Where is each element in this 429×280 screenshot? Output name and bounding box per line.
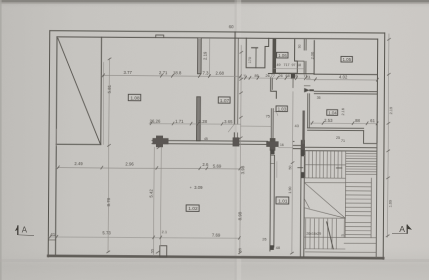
horiz dim y=237 xyxy=(48,237,240,238)
svg-text:48: 48 xyxy=(276,246,280,250)
corridor top wall xyxy=(268,72,314,74)
svg-text:5.73: 5.73 xyxy=(102,230,111,235)
svg-text:68: 68 xyxy=(285,74,289,78)
svg-text:18.8: 18.8 xyxy=(173,70,182,75)
svg-text:1.04: 1.04 xyxy=(328,110,337,115)
svg-text:3.09: 3.09 xyxy=(194,185,203,190)
svg-text:36: 36 xyxy=(317,96,321,100)
svg-text:2.16: 2.16 xyxy=(341,108,345,115)
svg-text:2.68: 2.68 xyxy=(215,71,224,76)
svg-text:8.98: 8.98 xyxy=(238,211,243,220)
svg-text:A: A xyxy=(399,224,405,234)
horiz dim y=167.6 xyxy=(56,168,240,169)
svg-text:55: 55 xyxy=(151,249,155,253)
svg-text:1.08: 1.08 xyxy=(130,95,140,101)
shaft wall right of 1.06 xyxy=(304,40,306,74)
dim tick marks xyxy=(49,36,390,255)
outer wall right xyxy=(383,33,385,259)
bottom wall xyxy=(48,256,383,258)
svg-text:1.90: 1.90 xyxy=(288,187,292,194)
svg-text:49: 49 xyxy=(293,74,297,78)
rotated dimension texts xyxy=(106,43,394,255)
svg-text:2.6: 2.6 xyxy=(202,162,209,167)
stair west wall xyxy=(300,150,304,257)
top-center rooms xyxy=(246,38,378,144)
fold crease xyxy=(235,0,237,280)
U shaft left of 1.06 xyxy=(246,38,269,68)
svg-text:1.05: 1.05 xyxy=(343,57,352,62)
svg-text:5.42: 5.42 xyxy=(149,189,154,198)
svg-text:25: 25 xyxy=(336,136,340,140)
svg-text:1.03: 1.03 xyxy=(278,107,287,112)
outer wall left xyxy=(48,31,50,257)
svg-text:7.69: 7.69 xyxy=(212,233,221,238)
marker 1A left xyxy=(17,225,19,235)
svg-text:43: 43 xyxy=(295,124,299,128)
svg-text:5.81: 5.81 xyxy=(107,84,112,93)
svg-text:61: 61 xyxy=(370,118,375,123)
svg-text:97: 97 xyxy=(292,63,296,67)
svg-text:2.53: 2.53 xyxy=(324,118,333,123)
wall 1.08/1.07 upper segment xyxy=(197,38,201,74)
level marks xyxy=(298,167,342,169)
top wall notch xyxy=(156,35,164,38)
svg-text:7.3: 7.3 xyxy=(202,71,209,76)
svg-text:8.78: 8.78 xyxy=(106,197,111,206)
vertical dim x=240.6 xyxy=(240,45,241,254)
right flight treads upper xyxy=(346,153,377,174)
svg-text:60: 60 xyxy=(229,24,234,29)
room 1.03 walls xyxy=(271,78,277,98)
svg-text:3.65: 3.65 xyxy=(224,119,233,124)
horiz dim y=121.3 in 1.04 xyxy=(310,122,377,124)
svg-text:1.71: 1.71 xyxy=(175,119,184,124)
svg-text:26: 26 xyxy=(262,237,266,241)
stair arrow diagonal xyxy=(326,222,333,249)
shaft blob at 290-294 xyxy=(291,74,295,79)
svg-text:5.69: 5.69 xyxy=(213,164,222,169)
right flight treads lower xyxy=(345,183,371,216)
svg-text:75: 75 xyxy=(266,114,270,118)
corridor columns (dark) xyxy=(152,136,305,156)
svg-text:2.71: 2.71 xyxy=(159,70,168,75)
horiz dim y=77.8 under 1.05 xyxy=(306,79,377,81)
room label boxes xyxy=(128,51,353,212)
svg-text:18: 18 xyxy=(297,63,301,67)
horiz dim y=76.4 top-center xyxy=(238,77,310,80)
svg-text:73: 73 xyxy=(306,75,310,79)
svg-text:170: 170 xyxy=(248,57,252,63)
vertical dim x=109 xyxy=(108,58,109,252)
svg-text:4.02: 4.02 xyxy=(339,75,348,80)
small dim ticks xyxy=(55,129,57,146)
diagonal room top-left xyxy=(100,37,103,144)
svg-text:1.07: 1.07 xyxy=(220,98,230,104)
upper double flight treads xyxy=(305,151,342,178)
stair right wall xyxy=(375,144,378,257)
svg-text:2.19: 2.19 xyxy=(389,107,393,114)
room 1.06 outline xyxy=(273,39,297,73)
stairwell inner vertical xyxy=(344,152,347,238)
svg-text:71: 71 xyxy=(341,139,345,143)
svg-text:45: 45 xyxy=(204,137,208,141)
outer wall top xyxy=(50,31,385,33)
lower flight treads xyxy=(306,219,337,249)
left wall bottom column emphasis xyxy=(48,239,55,241)
top dark edge xyxy=(0,0,429,2)
right margin dim xyxy=(388,34,389,237)
lower-right tread lines xyxy=(345,222,371,234)
svg-text:86: 86 xyxy=(254,74,258,78)
central wall x=236 upper xyxy=(233,32,236,124)
svg-text:2.96: 2.96 xyxy=(125,161,134,166)
svg-text:2.19: 2.19 xyxy=(202,51,207,60)
svg-text:49: 49 xyxy=(277,63,281,67)
svg-text:2.06: 2.06 xyxy=(311,52,315,59)
landing xyxy=(304,183,345,219)
room 1.05 xyxy=(313,41,315,75)
svg-text:26,77: 26,77 xyxy=(265,74,275,78)
vertical dim x=292.6 xyxy=(292,92,293,254)
vertical dim x=209 short xyxy=(208,39,210,76)
staircase xyxy=(297,143,377,257)
svg-text:3.28: 3.28 xyxy=(199,119,208,124)
svg-text:55: 55 xyxy=(238,248,242,252)
vertical dim x=158.5 xyxy=(153,147,161,256)
svg-text:26: 26 xyxy=(278,74,282,78)
svg-text:3.98: 3.98 xyxy=(240,165,245,174)
lower flight bounds xyxy=(304,217,345,219)
svg-text:1.01: 1.01 xyxy=(278,198,288,204)
dimension texts xyxy=(50,23,376,251)
dimension lines xyxy=(48,31,389,257)
svg-text:88: 88 xyxy=(355,118,360,123)
svg-text:50: 50 xyxy=(288,166,292,170)
wall 1.02/1.01 xyxy=(270,149,275,251)
svg-text:16: 16 xyxy=(280,143,284,147)
svg-text:2.1: 2.1 xyxy=(162,229,167,234)
entrance arrow xyxy=(304,85,314,92)
svg-text:2.49: 2.49 xyxy=(74,161,83,166)
svg-text:+: + xyxy=(190,186,192,190)
svg-text:41: 41 xyxy=(50,232,55,237)
svg-text:26,26: 26,26 xyxy=(150,118,161,123)
lower-left walls xyxy=(48,148,304,258)
svg-text:1.06: 1.06 xyxy=(278,53,287,58)
svg-text:A: A xyxy=(22,226,28,235)
corridor mid walls xyxy=(152,140,377,151)
svg-text:717: 717 xyxy=(284,63,290,67)
svg-text:m: m xyxy=(341,234,344,238)
horiz dim y=122 left xyxy=(149,123,241,126)
svg-text:1.69: 1.69 xyxy=(389,200,393,207)
svg-text:1.02: 1.02 xyxy=(188,206,198,212)
wall 1.08/1.07 lower segment xyxy=(196,97,200,141)
svg-text:90: 90 xyxy=(298,44,302,48)
horiz dim y=75 xyxy=(101,74,241,77)
svg-text:26x16x29: 26x16x29 xyxy=(306,232,321,236)
room 1.04 xyxy=(314,91,377,94)
section markers (not rotated) xyxy=(15,224,412,236)
svg-text:3.77: 3.77 xyxy=(123,70,132,75)
column in room 1.02 bottom xyxy=(160,246,167,257)
